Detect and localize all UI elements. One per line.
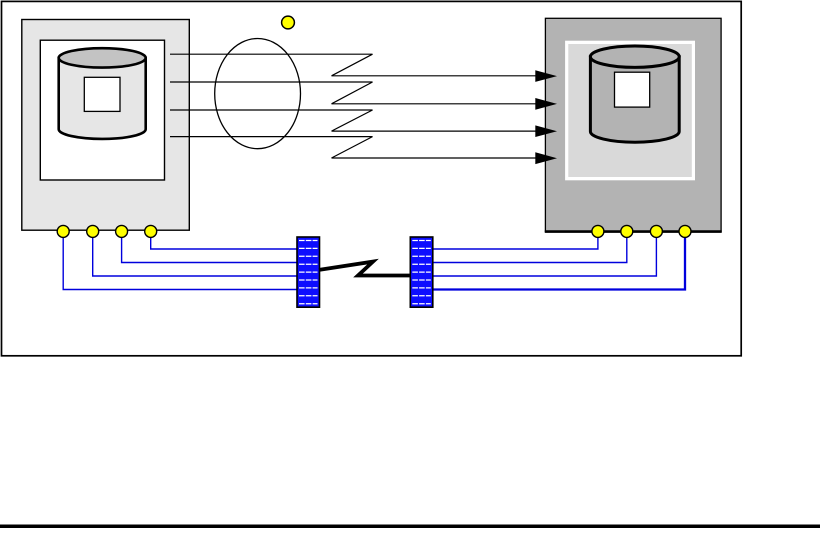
right port node 1 [592, 225, 604, 237]
left disk cylinder body [59, 58, 146, 139]
left port node 3 [116, 225, 128, 237]
right port wire 2 [433, 236, 627, 263]
link 4 arrowhead [535, 152, 557, 164]
link 4 upper wire [170, 137, 373, 158]
network ellipse [215, 39, 301, 149]
right host box [545, 18, 721, 231]
bottom page rule [0, 525, 820, 529]
right inner white frame [565, 41, 695, 181]
right port wire 4 (thick) [433, 236, 685, 290]
right host box thick bottom edge [545, 230, 722, 233]
link 1 arrowhead [535, 70, 557, 82]
link 2 upper wire [170, 82, 373, 104]
left disk cylinder top [59, 48, 146, 67]
left inner white box [40, 40, 164, 180]
left port node 4 [145, 225, 157, 237]
top yellow node [282, 16, 295, 29]
left port wire 1 [63, 236, 297, 290]
left host box [22, 20, 190, 231]
broken cable bolt [319, 262, 411, 276]
outer frame [2, 1, 742, 355]
right inner gray box [568, 44, 692, 177]
right port node 2 [621, 225, 633, 237]
link 1 upper wire [170, 54, 373, 76]
link 3 arrowhead [535, 125, 557, 137]
left port wire 2 [93, 236, 297, 276]
right port node 3 [650, 225, 662, 237]
left port wire 3 [122, 236, 297, 263]
left port node 1 [57, 225, 69, 237]
right disk cylinder top [590, 46, 679, 67]
left port node 2 [87, 225, 99, 237]
right cable connector [410, 237, 433, 307]
right port wire 3 [433, 236, 657, 276]
link 3 upper wire [170, 110, 373, 131]
link 2 lower wire [332, 103, 537, 105]
right port wire 1 [433, 236, 598, 249]
link 1 lower wire [332, 75, 537, 77]
left disk white square [84, 77, 120, 111]
link 3 lower wire [332, 130, 537, 132]
right port node 4 [679, 225, 691, 237]
right disk cylinder body [590, 57, 679, 143]
left cable connector [297, 237, 320, 307]
link 2 arrowhead [535, 98, 557, 110]
link 4 lower wire [332, 157, 537, 159]
right disk white square [615, 72, 650, 107]
left port wire 4 [151, 236, 297, 249]
